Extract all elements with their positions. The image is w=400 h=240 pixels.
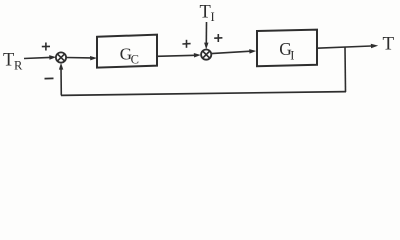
plus sign at S1 input — [42, 43, 50, 51]
summing junction S1 — [56, 52, 66, 62]
svg-text:R: R — [14, 59, 23, 73]
wire feedback: branch down from output line — [344, 47, 347, 92]
block GC (controller) — [97, 35, 157, 68]
node TI (disturbance input label) — [200, 2, 215, 24]
plus sign at S2 top input — [214, 34, 222, 42]
wire feedback: rise to summer S1 — [59, 63, 63, 96]
wire TI to summer S2 — [204, 22, 208, 49]
plus sign at S2 left input — [182, 40, 190, 48]
wire feedback: bottom run — [61, 92, 346, 96]
summing junction S2 — [201, 50, 211, 60]
svg-text:T: T — [383, 34, 395, 55]
node T (output label) — [383, 34, 395, 55]
svg-text:I: I — [290, 49, 294, 63]
svg-text:T: T — [3, 50, 14, 70]
svg-text:C: C — [131, 53, 139, 67]
wire summer S2 to block GI — [211, 49, 256, 54]
wire block GI to output T — [317, 44, 378, 49]
minus sign at S1 feedback input — [45, 77, 54, 79]
wire block GC to summer S2 — [157, 53, 201, 58]
wire TR to summer S1 — [24, 55, 56, 60]
svg-text:T: T — [200, 2, 211, 22]
svg-text:I: I — [211, 10, 215, 24]
block GI (process) — [257, 30, 317, 67]
node TR (setpoint input label) — [3, 50, 23, 72]
wire summer S1 to block GC — [66, 56, 97, 60]
